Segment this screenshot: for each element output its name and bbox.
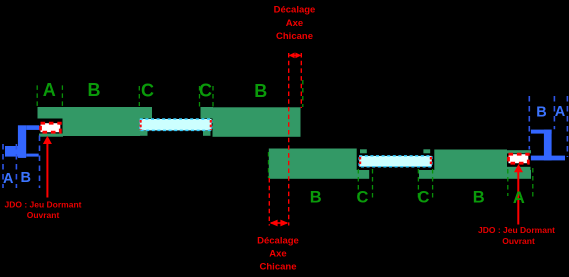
frame bracket left (blue) : vertical post	[18, 125, 26, 158]
axis line at panel 2 left end	[268, 178, 270, 226]
panel 2 bottom strip under right JDO box	[507, 167, 531, 179]
line C2 left	[199, 86, 201, 107]
chicane brush seal of panel 1 (hatched box)	[140, 119, 212, 130]
bottom offset double arrow	[270, 220, 289, 227]
svg-text:A: A	[555, 104, 566, 120]
line A/B	[61, 85, 63, 107]
panel 2 left body	[269, 149, 357, 179]
red callout arrow right (points up to JDO box)	[514, 164, 523, 225]
panel 1 tab below hatch seal, left	[140, 131, 148, 136]
panel 1 tab below hatch seal, right	[203, 131, 211, 136]
green dashed projection lines, lower assembly	[358, 168, 533, 201]
top offset double arrow	[289, 53, 302, 59]
svg-text:Décalage: Décalage	[274, 4, 316, 15]
svg-text:C: C	[141, 81, 154, 101]
line B/C	[138, 86, 140, 106]
line A right	[532, 168, 534, 197]
green dashed projection lines, upper assembly	[37, 80, 303, 178]
panel 2 tab above hatch seal, left	[360, 149, 367, 153]
JDO seal box left (white, red dotted border)	[41, 123, 61, 132]
JDO seal box right (white, red dotted border)	[509, 154, 529, 163]
frame bracket right (blue) : top bar	[531, 130, 552, 134]
line at panel 1 right end	[302, 80, 304, 107]
svg-text:Décalage: Décalage	[257, 236, 299, 247]
blue dashed frame lines left	[3, 136, 40, 189]
panel 2 top lip at right end (over JDO gap)	[507, 150, 531, 153]
svg-text:JDO : Jeu Dormant: JDO : Jeu Dormant	[5, 199, 82, 209]
svg-text:Axe: Axe	[286, 18, 303, 29]
panel 2 (lower-right sliding panel, green) : bottom strip left part	[269, 170, 369, 179]
svg-text:B: B	[21, 170, 31, 186]
svg-text:C: C	[199, 81, 212, 101]
panel 1 left body	[63, 107, 141, 136]
svg-text:C: C	[357, 189, 369, 207]
svg-text:A: A	[43, 80, 56, 100]
panel 1 (upper-left sliding panel, green) : top strip left	[38, 107, 153, 119]
svg-text:Chicane: Chicane	[276, 31, 313, 42]
svg-text:B: B	[310, 189, 322, 207]
svg-text:A: A	[513, 189, 525, 207]
line at panel 2 left end	[268, 152, 270, 178]
line C2 right	[212, 86, 214, 107]
panel 1 top strip right	[201, 107, 214, 119]
chicane brush seal of panel 2 (hatched box)	[359, 156, 432, 167]
frame bracket left : bottom thin bar	[26, 154, 39, 157]
line A left	[507, 169, 509, 196]
panel 2 right body	[434, 150, 507, 179]
line C2 right	[432, 169, 434, 201]
line A left	[36, 85, 38, 107]
line C2 left	[417, 169, 419, 201]
panel 2 tab above hatch seal, right	[423, 149, 430, 153]
svg-text:B: B	[88, 80, 101, 100]
line C left	[357, 169, 359, 201]
panel 1 right body	[213, 107, 301, 137]
svg-text:Chicane: Chicane	[260, 262, 297, 273]
frame bracket left : top arm	[26, 125, 39, 130]
svg-text:A: A	[3, 171, 14, 187]
svg-text:B: B	[254, 81, 267, 101]
blue dashed frame lines right	[529, 96, 567, 157]
svg-text:Axe: Axe	[269, 249, 286, 260]
frame bracket right : vertical post	[544, 130, 552, 161]
red dashed dimension lines (chicane axes)	[269, 53, 301, 226]
svg-text:C: C	[418, 189, 430, 207]
panel 2 bottom strip right part	[419, 170, 531, 179]
red callout arrow left (points up to JDO box)	[43, 136, 52, 198]
line C right	[372, 169, 374, 201]
svg-text:Ouvrant: Ouvrant	[502, 236, 535, 246]
svg-text:B: B	[536, 105, 546, 121]
svg-text:B: B	[473, 189, 485, 207]
svg-text:JDO : Jeu Dormant: JDO : Jeu Dormant	[478, 225, 555, 235]
axis line at panel 1 right end	[300, 53, 302, 108]
axis line center (long)	[288, 53, 290, 226]
frame bracket right : bottom bar with foot	[531, 156, 565, 161]
svg-text:Ouvrant: Ouvrant	[27, 210, 60, 220]
frame bracket left : foot	[5, 146, 18, 157]
panel 1 bottom lip at left end (under JDO gap)	[39, 134, 63, 137]
